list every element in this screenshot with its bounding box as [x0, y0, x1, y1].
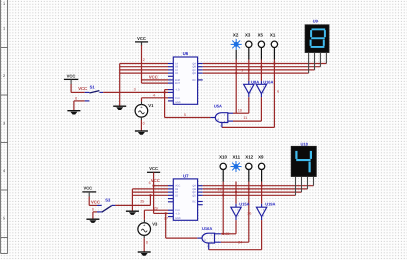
wire VCC net to U6: [142, 45, 169, 83]
svg-text:U19A: U19A: [265, 201, 275, 206]
wire U8A out to U5A input 1 (net 10): [233, 97, 249, 113]
U6 pin stubs right: [198, 64, 203, 80]
svg-text:6: 6: [277, 90, 279, 94]
svg-text:U15A: U15A: [239, 201, 249, 206]
ground at S3: [86, 219, 99, 223]
U6 pin stubs left: [168, 64, 173, 101]
wire V3 to ground: [143, 235, 145, 238]
wire S3 lower throw to ground: [92, 212, 94, 219]
svg-text:1D: 1D: [175, 72, 178, 75]
wire V3 to U7 (net 29): [144, 210, 168, 220]
svg-text:1: 1: [3, 27, 5, 31]
display U9 leads: [309, 52, 327, 73]
junction X10 net: [222, 233, 224, 235]
U6 pin texts: [175, 63, 196, 104]
svg-text:21: 21: [218, 188, 222, 192]
svg-text:X10: X10: [219, 155, 227, 160]
svg-text:CLK: CLK: [175, 97, 180, 100]
svg-text:4: 4: [153, 93, 155, 97]
svg-text:X11: X11: [233, 155, 241, 160]
svg-text:GND: GND: [175, 217, 181, 220]
svg-text:X1: X1: [270, 32, 276, 37]
svg-text:GND: GND: [175, 101, 181, 104]
U7 pin stubs right: [198, 186, 203, 205]
IC U7: [173, 174, 197, 221]
svg-text:VCC: VCC: [91, 200, 100, 205]
svg-text:2: 2: [143, 58, 145, 62]
wire bus right of U7 to display U18: [203, 186, 314, 196]
svg-text:25: 25: [140, 200, 144, 204]
V1 top lead: [141, 102, 143, 105]
svg-text:V3: V3: [152, 221, 158, 226]
wire X10 down to U16A input 1: [222, 182, 224, 234]
wire U19A out to U16A bottom input: [209, 220, 262, 250]
wire U15A out to U16A input 1 (net 23): [221, 220, 236, 234]
buffer U8A: [244, 80, 260, 98]
U7 pin texts: [175, 185, 196, 220]
buffer U16A (top): [256, 80, 273, 98]
svg-text:QD: QD: [192, 72, 196, 75]
wire bus left of U7: [132, 189, 168, 211]
svg-text:11: 11: [243, 116, 247, 120]
svg-text:4: 4: [3, 169, 5, 173]
display U9: [305, 18, 329, 52]
buffer U19A: [256, 201, 275, 220]
svg-text:X12: X12: [245, 155, 253, 160]
wire X3 down to buffer U8A input: [248, 60, 250, 81]
svg-text:0: 0: [75, 96, 77, 100]
IC U6: [173, 51, 197, 104]
svg-text:23: 23: [225, 232, 229, 236]
switch S3: [89, 192, 115, 212]
junction X10 net at bus: [222, 194, 224, 196]
svg-text:3: 3: [134, 87, 136, 91]
wire VCC net to U7: [154, 172, 168, 213]
wire S3 common to bus row 4 (net 25): [115, 195, 150, 205]
wire V1 to ground: [140, 117, 142, 120]
wire X9 down to buffer U19A input: [261, 182, 263, 204]
wire S1 common to U6: [103, 90, 168, 93]
wire X5 down to buffer U16A input: [260, 60, 262, 81]
ground at V3: [138, 252, 151, 256]
svg-text:2: 2: [3, 74, 5, 78]
svg-text:10: 10: [238, 108, 242, 112]
probe X2 (lit): [231, 32, 242, 50]
svg-text:3: 3: [3, 122, 5, 126]
wire bus right of U6 to display U9: [203, 64, 327, 74]
wire U16A out to U5A input 2 (net 11): [233, 97, 261, 121]
ground at V1: [135, 131, 148, 135]
wire X1 down to U5A third input (net 6): [222, 60, 275, 128]
VCC symbol U7 supply: [147, 166, 160, 172]
VCC symbol at S3: [82, 186, 96, 192]
svg-text:0: 0: [143, 122, 145, 126]
buffer U15A: [231, 201, 250, 220]
wire to U5A output (net 5): [165, 90, 211, 118]
wire X11 down to buffer U15A input: [235, 182, 237, 204]
svg-text:0: 0: [92, 207, 94, 211]
junction X12 net: [248, 188, 250, 190]
svg-text:29: 29: [154, 206, 158, 210]
svg-text:9: 9: [241, 69, 243, 73]
svg-text:U5A: U5A: [214, 104, 222, 109]
svg-text:X3: X3: [245, 32, 251, 37]
svg-text:X9: X9: [258, 155, 264, 160]
junction S3 net: [149, 194, 151, 196]
svg-text:ENT: ENT: [175, 82, 180, 85]
wire bus left of U6 (rows 1-4): [120, 64, 168, 106]
wire V1 to U6 (net 4): [142, 98, 169, 102]
svg-text:X2: X2: [233, 32, 239, 37]
svg-text:5: 5: [184, 113, 186, 117]
svg-text:RC: RC: [192, 201, 196, 204]
svg-text:~LD: ~LD: [175, 212, 180, 215]
V1 clock source: [135, 104, 148, 117]
svg-text:24: 24: [238, 241, 242, 245]
junction net 27: [165, 212, 167, 214]
junction X9 net: [260, 185, 262, 187]
svg-text:~LD: ~LD: [175, 89, 180, 92]
V3 top lead: [143, 220, 145, 223]
probe X9: [258, 155, 265, 182]
svg-text:U16A: U16A: [202, 226, 212, 231]
wire S1 lower throw to ground: [73, 101, 75, 111]
svg-text:RC: RC: [192, 79, 196, 82]
AND gate U5A: [210, 104, 233, 128]
junction X11 net: [235, 191, 237, 193]
probe X10: [219, 155, 227, 182]
probe X3: [245, 32, 252, 59]
svg-text:VCC: VCC: [67, 74, 76, 79]
svg-text:VCC: VCC: [83, 186, 92, 191]
junction X5 net: [260, 66, 262, 68]
svg-text:VCC: VCC: [151, 178, 160, 183]
junction X1 net: [273, 62, 275, 64]
wire U16A gate output to U7 (net 27): [166, 213, 198, 238]
U7 pin stubs left: [168, 186, 173, 217]
svg-text:VCC: VCC: [149, 75, 158, 80]
junction S1 net: [163, 91, 165, 93]
svg-text:VCC: VCC: [78, 86, 87, 91]
VCC symbol U6 supply: [135, 36, 148, 46]
junction X2 net: [235, 72, 237, 74]
probe X12: [245, 155, 253, 182]
VCC symbol at S1: [64, 74, 78, 80]
ground (bottom bus): [126, 211, 139, 215]
svg-text:6: 6: [149, 181, 151, 185]
probe X1: [270, 32, 278, 59]
svg-text:U6: U6: [183, 51, 189, 56]
wire X2 down to U5A input 1: [235, 50, 237, 60]
switch S1: [71, 79, 103, 101]
wire X12 down to U16A input 2 (net 26): [221, 182, 249, 243]
svg-text:5: 5: [3, 217, 5, 221]
display U18 leads: [296, 177, 314, 196]
svg-text:1: 1: [3, 2, 5, 6]
probe X5: [258, 32, 265, 59]
svg-text:X5: X5: [258, 32, 264, 37]
svg-text:VCC: VCC: [149, 166, 158, 171]
V3 clock source: [138, 223, 151, 236]
svg-text:26: 26: [247, 212, 251, 216]
svg-text:QD: QD: [192, 194, 196, 197]
junction VCC net U7: [152, 185, 154, 187]
junction X3 net: [248, 69, 250, 71]
svg-text:U9: U9: [313, 18, 319, 23]
display U18: [291, 142, 316, 177]
ground at S1: [67, 111, 80, 115]
svg-text:0: 0: [146, 241, 148, 245]
AND gate U16A: [197, 226, 221, 250]
U6 pin stub (load): [168, 89, 173, 91]
sheet border strip: [1, 0, 8, 254]
svg-text:U7: U7: [183, 174, 189, 179]
svg-text:VCC: VCC: [137, 36, 146, 41]
svg-text:V1: V1: [148, 103, 154, 108]
ground (left bus): [113, 106, 126, 110]
svg-text:1D: 1D: [175, 194, 178, 197]
svg-text:S1: S1: [90, 85, 96, 90]
svg-text:S3: S3: [105, 198, 111, 203]
probe X11 (lit): [231, 155, 242, 172]
